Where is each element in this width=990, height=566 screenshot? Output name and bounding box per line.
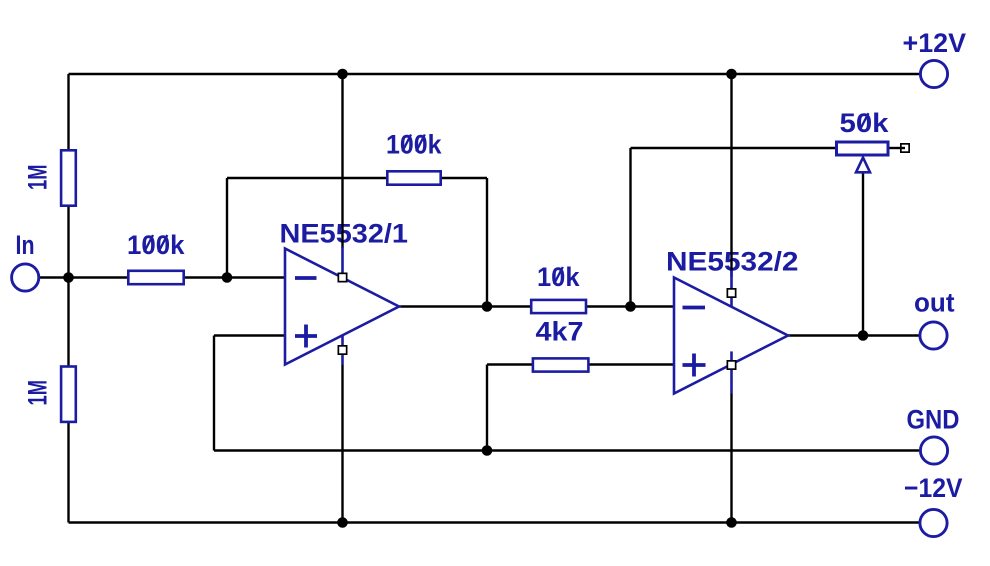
slashed zero marks 100k input (144, 235, 167, 252)
resistor 10k (531, 300, 586, 313)
wire left vertical upper (top rail to R1) (67, 74, 69, 152)
pin U2 V- stub (730, 351, 733, 393)
terminal +12V circle (920, 60, 947, 87)
wire +12V top rail (69, 73, 920, 75)
svg-text:1M: 1M (23, 165, 53, 191)
wire U2 output (788, 334, 919, 336)
resistor 1M upper (61, 150, 76, 205)
junction bottom rail U1 supply (337, 517, 348, 528)
junction U2 output wiper (858, 330, 869, 341)
wire GND rail up to R6 (486, 365, 488, 451)
wire R4 to feedback right vertical (440, 177, 487, 179)
wire feedback vertical at node A (226, 178, 228, 278)
potentiometer P1 wiper arrow (856, 158, 870, 173)
op-amp U1 NE5532/1 triangle (285, 249, 399, 365)
pin U2 V+ stub (730, 271, 733, 308)
wire to R6 left (487, 363, 534, 365)
wire R6 to U2 non-inverting input (587, 363, 674, 365)
junction U1 output feedback (482, 301, 493, 312)
wire U1 non-inverting input vertical down (213, 336, 215, 451)
wire -12V bottom rail (69, 521, 920, 523)
svg-text:4k7: 4k7 (536, 317, 584, 347)
resistor 100k feedback (387, 171, 440, 184)
slashed zero mark 10k (554, 267, 563, 284)
pin square U1 V- (338, 346, 346, 354)
U1 inverting input minus sign (295, 276, 317, 280)
wire vertical up to pot wire (629, 148, 631, 307)
svg-text:−12V: −12V (904, 473, 963, 503)
terminal out circle (920, 322, 947, 349)
pin square U1 V+ (338, 273, 346, 281)
slashed zero marks 100k feedback (402, 135, 424, 152)
wire pot right stub (890, 147, 906, 149)
wire V- supply vertical from U1 (341, 365, 343, 523)
pin U1 V+ stub (341, 247, 344, 279)
resistor 4k7 (533, 358, 589, 371)
pin square P1 unconnected end (901, 144, 909, 152)
slashed zero mark 50k (860, 113, 869, 130)
pin U1 V- stub (341, 335, 344, 365)
svg-text:+12V: +12V (903, 28, 967, 58)
terminal In circle (12, 264, 39, 291)
svg-text:100k: 100k (386, 129, 442, 159)
wire pot wiper vertical to U2 output (862, 161, 864, 336)
wire feedback horizontal to R4 (227, 177, 388, 179)
wire R5 to U2 inverting input (585, 305, 674, 307)
junction top rail U1 supply (337, 69, 348, 80)
op-amp U2 NE5532/2 triangle (674, 278, 788, 394)
wire left vertical middle (R1 to In node to R2) (67, 203, 69, 368)
svg-text:100k: 100k (127, 230, 185, 260)
wire GND rail (214, 449, 919, 451)
svg-text:NE5532/1: NE5532/1 (280, 219, 409, 249)
svg-text:1M: 1M (23, 380, 53, 406)
resistor 1M lower (61, 367, 76, 422)
junction GND R6 branch (482, 445, 493, 456)
terminal GND circle (920, 437, 947, 464)
junction In node (63, 272, 74, 283)
wire horizontal to pot P1 left end (631, 147, 836, 149)
terminal -12V circle (920, 509, 947, 536)
junction top rail U2 supply (726, 69, 737, 80)
U1 non-inverting input plus sign (295, 325, 317, 348)
U2 non-inverting input plus sign (683, 354, 706, 377)
svg-text:out: out (914, 288, 955, 318)
potentiometer P1 50k body (837, 142, 889, 155)
svg-text:In: In (16, 230, 35, 260)
wire left vertical lower (R2 to bottom rail) (67, 421, 69, 523)
wire R3 to op-amp U1 inverting input (183, 276, 285, 278)
wire V+ supply vertical to U1 (341, 74, 343, 248)
wire In terminal to R3 (40, 276, 130, 278)
U2 inverting input minus sign (683, 306, 706, 310)
svg-text:GND: GND (907, 405, 960, 435)
wire V- supply vertical from U2 (730, 394, 732, 523)
resistor 100k input (128, 271, 183, 284)
pin square U2 V+ (727, 289, 735, 297)
wire feedback right vertical to U1 output (486, 178, 488, 307)
wire V+ supply vertical to U2 (730, 74, 732, 277)
junction bottom rail U2 supply (726, 517, 737, 528)
junction U1 inverting input node (222, 272, 233, 283)
wire U1 output to R5 (399, 305, 532, 307)
pin square U2 V- (727, 361, 735, 369)
wire U1 non-inverting input horizontal (214, 334, 285, 336)
junction U2 inverting branch (625, 301, 636, 312)
